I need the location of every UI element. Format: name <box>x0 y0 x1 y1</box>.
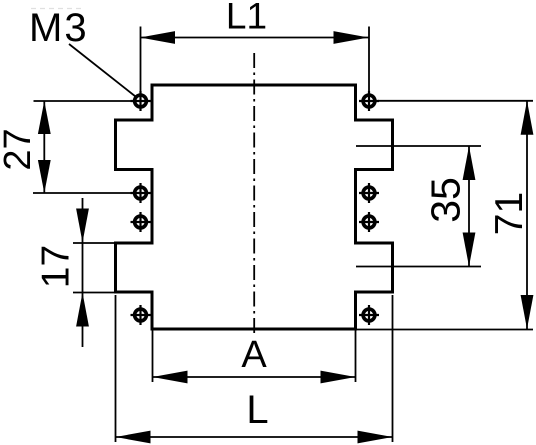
svg-text:27: 27 <box>0 128 39 170</box>
arrowhead A right <box>321 371 356 384</box>
dimension line L <box>116 436 393 438</box>
extension line A right <box>355 330 357 382</box>
crosshair top-right <box>359 100 379 102</box>
centerline <box>253 53 255 334</box>
hole ring mid-lower-right <box>363 216 375 228</box>
extension line 71 bottom <box>356 329 533 331</box>
extension line 27 bottom <box>33 192 131 194</box>
extension line 17 bottom <box>73 292 116 294</box>
hole mid-upper-left <box>131 183 151 203</box>
dimension line 27 <box>43 101 45 193</box>
arrowhead 27 top <box>38 101 51 134</box>
svg-text:A: A <box>241 334 267 376</box>
extension line A left <box>152 330 154 382</box>
extension line 35 top <box>356 145 481 147</box>
extension line L left <box>115 295 117 442</box>
extension line 35 bottom <box>356 266 481 268</box>
extension line 27 top <box>34 100 132 102</box>
dimension L1 <box>140 0 369 95</box>
extension line L right <box>392 295 394 442</box>
hole bottom-left <box>131 305 151 325</box>
dimension line 35 <box>468 146 470 267</box>
arrowhead 27 bottom <box>38 160 51 193</box>
crosshair bottom-right <box>359 314 379 316</box>
arrowhead 17 top <box>76 209 89 243</box>
svg-text:L: L <box>246 388 268 432</box>
arrowhead L1 left <box>140 31 175 44</box>
dimension 27 <box>0 101 131 193</box>
arrowhead L left <box>116 431 151 444</box>
crosshair mid-lower-right <box>359 221 379 223</box>
dimension 35 <box>356 146 481 267</box>
crosshair top-left M3 <box>131 100 151 102</box>
part outline <box>116 85 393 329</box>
hole ring mid-upper-left <box>135 187 147 199</box>
svg-text:M3: M3 <box>29 6 89 50</box>
crosshair mid-lower-left <box>131 221 151 223</box>
svg-text:L1: L1 <box>226 0 267 37</box>
extension line L1 right <box>368 27 370 96</box>
hole ring top-left M3 <box>135 95 147 107</box>
extension line 17 top <box>73 242 116 244</box>
hole ring mid-lower-left <box>135 216 147 228</box>
hole mid-upper-right <box>359 183 379 203</box>
dimension 17 <box>35 198 117 347</box>
svg-text:35: 35 <box>423 177 469 223</box>
extension line 71 top <box>378 100 533 102</box>
faint scan artifact top-left <box>31 8 83 10</box>
hole bottom-right <box>359 305 379 325</box>
arrowhead 35 bottom <box>463 233 476 267</box>
hole mid-lower-right <box>359 212 379 232</box>
crosshair bottom-left <box>131 314 151 316</box>
arrowhead 35 top <box>463 146 476 180</box>
hole ring bottom-left <box>135 309 147 321</box>
svg-text:17: 17 <box>35 245 78 288</box>
crosshair mid-upper-right <box>359 192 379 194</box>
hole ring mid-upper-right <box>363 187 375 199</box>
crosshair mid-upper-left <box>131 192 151 194</box>
arrowhead 71 bottom <box>521 295 534 329</box>
arrowhead L right <box>358 431 393 444</box>
arrowhead 17 bottom <box>76 293 89 327</box>
hole mid-lower-left <box>131 212 151 232</box>
hole top-right <box>359 91 379 111</box>
extension line L1 left <box>140 27 142 96</box>
arrowhead 71 top <box>521 101 534 135</box>
hole ring top-right <box>363 95 375 107</box>
svg-text:71: 71 <box>488 192 531 235</box>
leader M3 <box>69 44 136 97</box>
dimension A <box>153 330 356 383</box>
arrowhead A left <box>153 371 188 384</box>
dimension line 71 <box>526 101 528 329</box>
dimension line L1 <box>140 37 369 39</box>
dimension L <box>116 295 393 443</box>
dimension line 17 <box>82 198 84 347</box>
dimension line A <box>153 376 356 378</box>
arrowhead L1 right <box>334 31 369 44</box>
dimension 71 <box>356 101 533 330</box>
hole ring bottom-right <box>363 309 375 321</box>
hole top-left M3 <box>131 91 151 111</box>
